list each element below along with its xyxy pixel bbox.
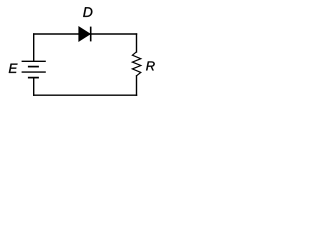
battery plate long (+) lower: [22, 71, 46, 73]
label R: [146, 61, 155, 70]
diode D triangle (anode): [79, 27, 91, 42]
wire bottom rail: [34, 94, 137, 96]
diode D cathode bar: [90, 27, 92, 42]
wire left bottom (battery - to bottom rail): [33, 78, 35, 96]
battery plate long (+) upper: [22, 60, 46, 62]
wire right top (top rail down to resistor): [136, 34, 138, 52]
battery E: [22, 61, 46, 77]
wire top (battery + to diode anode, through to resistor top): [34, 33, 137, 35]
wire right bottom (resistor bottom to bottom rail): [136, 76, 138, 95]
label D: [83, 7, 92, 17]
battery plate short (-) upper: [28, 66, 39, 68]
battery plate short (-) lower: [28, 77, 39, 79]
resistor R zigzag: [132, 52, 140, 76]
wire left vertical (battery top to top rail): [33, 34, 35, 61]
label E: [9, 64, 18, 73]
